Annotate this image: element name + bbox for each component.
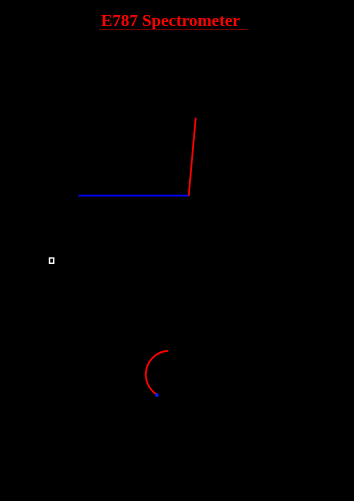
white square marker bbox=[50, 258, 54, 263]
red upward track bbox=[189, 118, 196, 196]
red curved track (arc) bbox=[146, 351, 168, 395]
blue beam line (horizontal track) bbox=[79, 195, 190, 197]
title underline bbox=[99, 29, 248, 30]
title "E787 Spectrometer" bbox=[101, 12, 240, 31]
blue endpoint dot bbox=[155, 393, 159, 397]
